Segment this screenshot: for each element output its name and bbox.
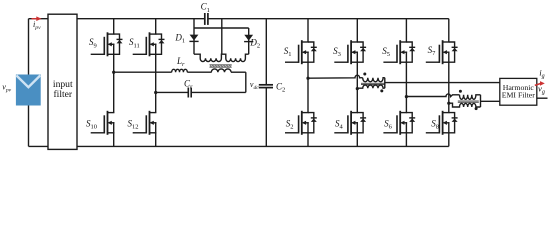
coupled inductor A core	[361, 82, 385, 84]
transformer primary winding	[211, 69, 231, 72]
wire leg S11/S12 middle	[155, 54, 157, 112]
capacitor C2	[259, 84, 273, 86]
wire leg S3/S4 middle	[356, 62, 358, 112]
wire leg S9/S10 middle	[113, 54, 115, 112]
wire inductor A right bracket	[384, 78, 386, 89]
wire phase A upper feed	[308, 75, 363, 78]
capacitor C1	[204, 13, 206, 25]
transistor S11	[149, 32, 151, 56]
wire grid output	[537, 97, 548, 99]
coupled inductor B core	[458, 100, 479, 102]
svg-text:EMI Filter: EMI Filter	[502, 91, 536, 100]
input filter block	[48, 14, 77, 149]
wire leg S7/S8 middle	[448, 62, 450, 112]
wire top DC rail (right of C1)	[208, 18, 449, 20]
transistor S10	[107, 111, 109, 135]
transistor S2	[301, 111, 303, 135]
capacitor Cr	[187, 88, 189, 98]
wire leg S9/S10 upper	[113, 19, 115, 34]
coupled inductor A upper winding	[363, 78, 385, 82]
coupled inductor B upper winding	[460, 95, 481, 100]
node bridge leg B tap	[154, 91, 157, 94]
PV panel source v_pv	[16, 75, 41, 106]
wire top DC rail (left of C1)	[77, 18, 205, 20]
transistor S7	[442, 40, 444, 64]
harmonic EMI filter block	[500, 78, 537, 105]
wire PV negative lead	[28, 106, 30, 147]
wire center tap	[221, 19, 223, 55]
wire leg S1/S2 lower	[307, 133, 309, 147]
polarity dot B upper	[459, 90, 462, 93]
inductor Lr	[172, 69, 188, 72]
wire leg S1/S2 middle	[307, 62, 309, 112]
node leg S1/S2 tap	[306, 77, 309, 80]
polarity dot A upper	[363, 73, 366, 76]
wire tank to primary	[187, 71, 211, 73]
transistor S1	[301, 40, 303, 64]
wire leg S11/S12 lower	[155, 133, 157, 147]
wire C2 upper	[265, 19, 267, 85]
wire inductor B right bracket	[480, 95, 482, 107]
wire primary right lead	[231, 71, 246, 73]
wire C2 lower	[265, 88, 267, 146]
wire phase B upper feed	[406, 94, 459, 97]
transistor S4	[350, 111, 352, 135]
transistor S12	[149, 111, 151, 135]
wire leg S11/S12 upper	[155, 19, 157, 34]
wire leg S3/S4 upper	[356, 19, 358, 42]
diode D1	[190, 35, 199, 41]
wire leg S5/S6 lower	[405, 133, 407, 147]
wire diode D1 branch	[193, 19, 195, 55]
transistor S3	[350, 40, 352, 64]
wire rectifier bridge	[194, 27, 249, 29]
wire bottom DC rail	[77, 145, 449, 147]
node phase B lower junction	[447, 102, 450, 105]
current arrow ig	[535, 83, 541, 85]
wire tank upper	[114, 71, 172, 73]
wire inverter output upper	[385, 82, 500, 84]
transistor S5	[399, 40, 401, 64]
transistor S6	[399, 111, 401, 135]
wire leg S9/S10 lower	[113, 133, 115, 147]
transistor S8	[442, 111, 444, 135]
polarity dot A lower	[380, 89, 383, 92]
transformer secondary winding	[194, 54, 222, 61]
wire leg S5/S6 upper	[405, 19, 407, 42]
wire leg S1/S2 upper	[307, 19, 309, 42]
diode D2	[244, 35, 253, 41]
wire tank return right	[191, 91, 246, 93]
current arrow i_pv	[32, 18, 37, 20]
wire diode D2 branch	[248, 28, 250, 54]
node bridge leg A tap	[112, 71, 115, 74]
transistor S9	[107, 32, 109, 56]
svg-text:filter: filter	[53, 89, 72, 100]
polarity dot B lower	[475, 107, 478, 110]
wire tank return left	[156, 91, 189, 93]
wire leg S5/S6 middle	[405, 62, 407, 112]
wire leg S3/S4 lower	[356, 133, 358, 147]
wire inverter output lower	[481, 100, 500, 102]
node phase A lower junction	[356, 87, 359, 90]
wire leg S7/S8 upper	[448, 19, 450, 42]
coupled inductor A lower winding	[357, 85, 385, 88]
wire PV positive lead	[28, 19, 30, 75]
transformer core	[210, 64, 232, 66]
coupled inductor B lower winding	[449, 103, 481, 107]
node leg S5/S6 tap	[405, 95, 408, 98]
wire leg S7/S8 lower	[448, 133, 450, 147]
